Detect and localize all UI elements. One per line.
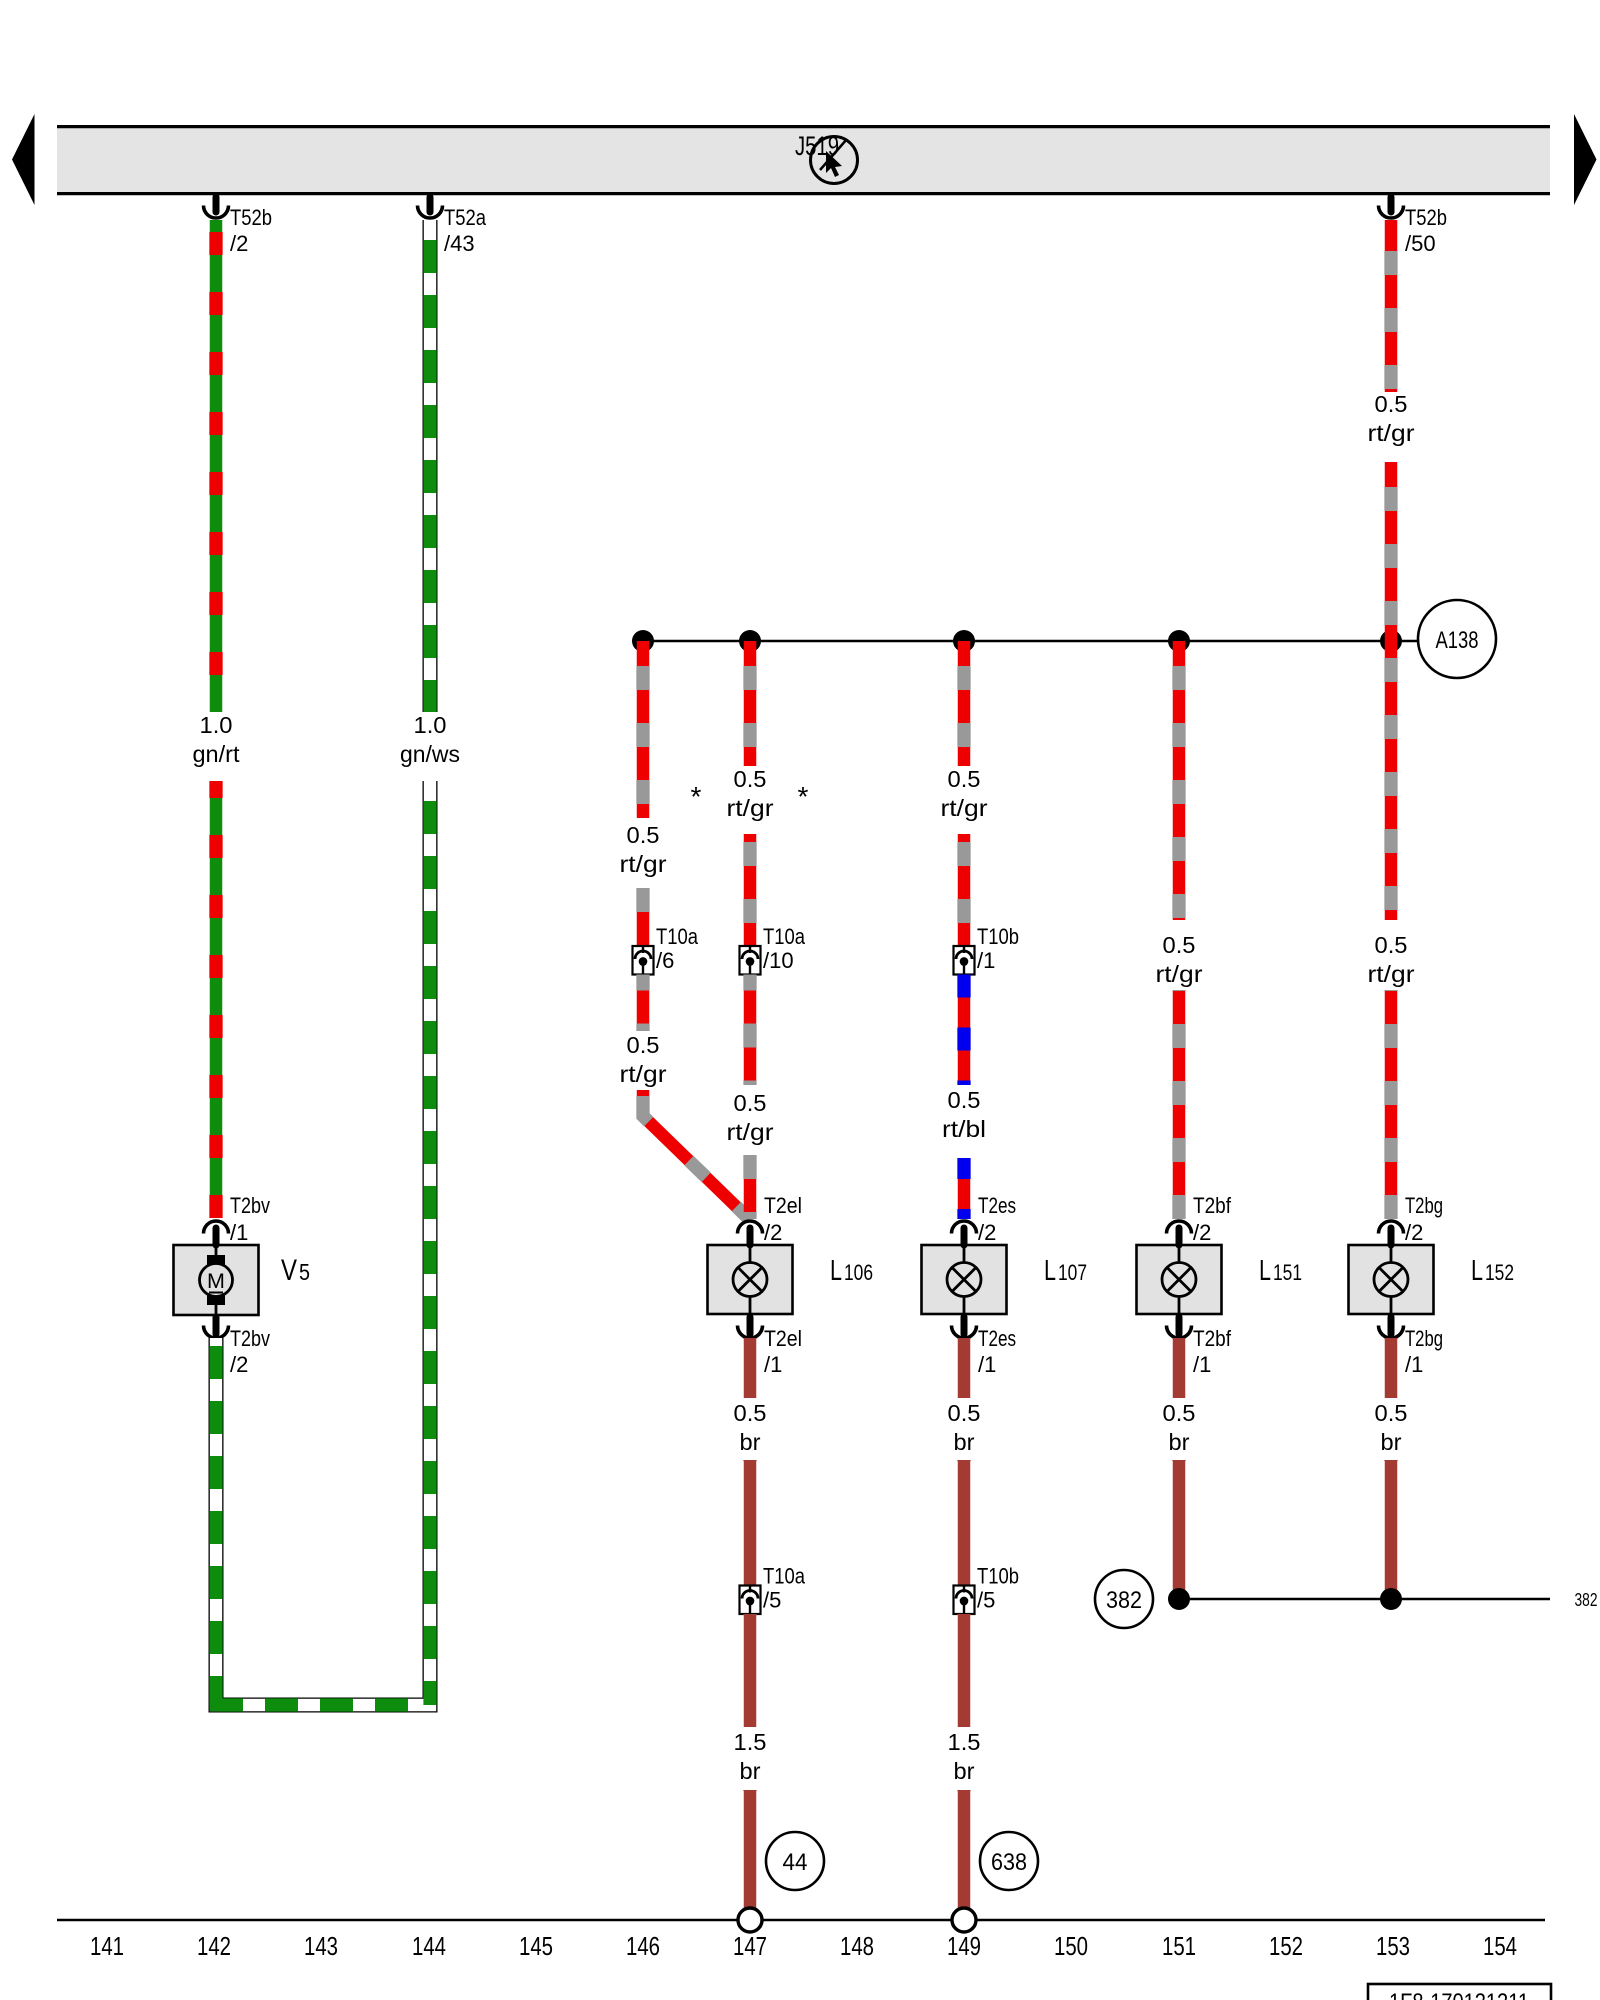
wire segment into L106 T2el/2 <box>744 1155 757 1219</box>
wire segment to connector T10a/6 <box>637 888 650 946</box>
svg-text:638: 638 <box>991 1849 1027 1876</box>
svg-text:rt/gr: rt/gr <box>1368 420 1415 446</box>
svg-text:/6: /6 <box>656 948 674 973</box>
svg-text:br: br <box>954 1429 975 1455</box>
svg-text:T2es: T2es <box>978 1326 1016 1351</box>
wire size label 0.5 rt/gr <box>727 1090 774 1145</box>
svg-text:L: L <box>1471 1255 1483 1287</box>
svg-text:0.5: 0.5 <box>1375 1400 1408 1426</box>
svg-text:/2: /2 <box>230 231 248 256</box>
wire 0.5 rt/gr from A138 node to T10a/6 <box>637 641 650 818</box>
svg-text:T10b: T10b <box>977 1564 1019 1589</box>
track number 144 <box>412 1931 446 1961</box>
track number 149 <box>947 1931 981 1961</box>
svg-text:L: L <box>830 1255 842 1287</box>
wire 1.0 gn/rt from T52b/2 to V5 T2bv/1 (upper segment) <box>210 220 223 712</box>
svg-text:gn/ws: gn/ws <box>400 741 460 767</box>
svg-text:148: 148 <box>840 1931 874 1961</box>
track number 152 <box>1269 1931 1303 1961</box>
svg-text:*: * <box>691 781 702 812</box>
svg-text:154: 154 <box>1483 1931 1517 1961</box>
track number 154 <box>1483 1931 1517 1961</box>
connector T52b/50 on J519 <box>1379 197 1448 256</box>
svg-text:147: 147 <box>733 1931 767 1961</box>
junction dot col146 <box>632 630 654 652</box>
wire size label 0.5 rt/gr <box>620 822 667 877</box>
track number 146 <box>626 1931 660 1961</box>
svg-text:/1: /1 <box>230 1220 248 1245</box>
wire size label 0.5 rt/gr <box>941 766 988 821</box>
wire size label 1.0 gn/rt <box>193 712 241 767</box>
svg-text:T52a: T52a <box>444 205 487 230</box>
svg-text:br: br <box>740 1429 761 1455</box>
svg-text:/2: /2 <box>230 1352 248 1377</box>
wire segment to connector T10b/1 <box>958 834 971 946</box>
svg-text:T10a: T10a <box>656 924 699 949</box>
svg-text:T2bf: T2bf <box>1193 1326 1232 1351</box>
svg-text:1.0: 1.0 <box>414 712 447 738</box>
wire segment to ground terminal 638 <box>958 1790 971 1908</box>
junction dot col147 <box>739 630 761 652</box>
connector T52b/2 on J519 <box>203 197 272 256</box>
wire segment below T10b/5 <box>958 1614 971 1727</box>
svg-text:T2bf: T2bf <box>1193 1193 1232 1218</box>
svg-text:L: L <box>1259 1255 1271 1287</box>
asterisk left <box>691 781 702 812</box>
svg-text:rt/bl: rt/bl <box>942 1116 986 1142</box>
ground reference circle 382 <box>1095 1570 1153 1628</box>
track number 147 <box>733 1931 767 1961</box>
svg-text:V: V <box>281 1254 297 1287</box>
svg-text:153: 153 <box>1376 1931 1410 1961</box>
inline connector T10b/1 <box>954 924 1020 975</box>
node label A138 <box>1418 600 1496 678</box>
svg-text:T10a: T10a <box>763 1564 806 1589</box>
ground continuation label 382 small <box>1575 1590 1598 1610</box>
svg-text:br: br <box>1381 1429 1402 1455</box>
svg-text:144: 144 <box>412 1931 446 1961</box>
svg-text:1.5: 1.5 <box>948 1729 981 1755</box>
svg-text:0.5: 0.5 <box>627 822 660 848</box>
wire 0.5 br from L107 T2es/1 <box>958 1338 971 1398</box>
svg-text:0.5: 0.5 <box>1375 391 1408 417</box>
track number 143 <box>304 1931 338 1961</box>
connector T2bv/2 on V5 <box>203 1317 270 1377</box>
svg-text:/2: /2 <box>1193 1220 1211 1245</box>
inline connector T10a/6 <box>633 924 699 975</box>
wire segment to T10b/5 <box>958 1460 971 1585</box>
wire 0.5 br from L106 T2el/1 <box>744 1338 757 1398</box>
continuation arrow left <box>12 114 35 205</box>
svg-text:br: br <box>1169 1429 1190 1455</box>
wire 1.0 gn/ws from T52a/43 (upper segment) <box>423 220 438 712</box>
svg-text:/1: /1 <box>1405 1352 1423 1377</box>
wire size label 1.5 br <box>734 1729 767 1784</box>
svg-text:44: 44 <box>783 1849 808 1876</box>
svg-text:A138: A138 <box>1436 627 1479 654</box>
ground reference circle 44 <box>766 1832 824 1890</box>
wire size label 0.5 br <box>734 1400 767 1455</box>
inline connector T10b/5 <box>954 1564 1020 1615</box>
svg-text:0.5: 0.5 <box>734 1400 767 1426</box>
svg-text:T52b: T52b <box>230 205 272 230</box>
connector T52a/43 on J519 <box>418 197 487 256</box>
svg-text:T52b: T52b <box>1405 205 1447 230</box>
svg-text:0.5: 0.5 <box>948 1087 981 1113</box>
wire size label 0.5 rt/bl <box>942 1087 986 1142</box>
svg-text:152: 152 <box>1269 1931 1303 1961</box>
svg-text:rt/gr: rt/gr <box>620 1061 667 1087</box>
svg-text:M: M <box>207 1269 225 1293</box>
svg-text:/10: /10 <box>763 948 794 973</box>
svg-text:145: 145 <box>519 1931 553 1961</box>
svg-text:151: 151 <box>1273 1260 1302 1285</box>
svg-text:br: br <box>954 1758 975 1784</box>
ground terminal symbol 638 <box>952 1908 976 1932</box>
svg-text:0.5: 0.5 <box>734 766 767 792</box>
lamp L152 with connectors T2bg <box>1349 1245 1434 1314</box>
svg-text:T2bv: T2bv <box>230 1193 270 1218</box>
wire 1.0 gn/ws U-run to V5 T2bv/2 <box>216 781 430 1705</box>
wire 1.0 gn/ws bottom run and up to V5 <box>210 1346 408 1711</box>
lamp L106 with connectors T2el <box>708 1245 793 1314</box>
wire size label 0.5 rt/gr <box>1368 932 1415 987</box>
ground reference circle 638 <box>980 1832 1038 1890</box>
svg-text:rt/gr: rt/gr <box>727 795 774 821</box>
svg-text:T2es: T2es <box>978 1193 1016 1218</box>
inline connector T10a/10 <box>740 924 806 975</box>
motor V5 (windshield washer pump) <box>174 1245 259 1315</box>
connector T2bv/1 on V5 <box>203 1193 270 1245</box>
ground connection line 382 <box>1179 1598 1550 1601</box>
junction dot col151 <box>1168 630 1190 652</box>
svg-text:0.5: 0.5 <box>1163 1400 1196 1426</box>
svg-text:149: 149 <box>947 1931 981 1961</box>
wire segment through A138 node <box>1385 462 1398 920</box>
wire 0.5 rt/gr from A138 node to L151 <box>1173 641 1186 920</box>
svg-text:T2bg: T2bg <box>1405 1326 1443 1351</box>
wire size label 0.5 rt/gr <box>1156 932 1203 987</box>
wire 0.5 br from L151 T2bf/1 <box>1173 1338 1186 1398</box>
track number 148 <box>840 1931 874 1961</box>
svg-text:5: 5 <box>299 1259 310 1285</box>
diagram part number box 1F8-170121211 <box>1368 1984 1551 2000</box>
svg-text:/1: /1 <box>1193 1352 1211 1377</box>
svg-text:T2bg: T2bg <box>1405 1193 1443 1218</box>
wire size label 1.5 br <box>948 1729 981 1784</box>
junction dot col149 <box>953 630 975 652</box>
track number 153 <box>1376 1931 1410 1961</box>
svg-text:/5: /5 <box>763 1588 781 1613</box>
wire size label 0.5 rt/gr <box>1368 391 1415 446</box>
svg-text:1.5: 1.5 <box>734 1729 767 1755</box>
svg-text:106: 106 <box>844 1260 873 1285</box>
svg-text:rt/gr: rt/gr <box>620 851 667 877</box>
wire 0.5 rt/gr from A138 node to T10a/10 <box>744 641 757 766</box>
wire junction bus to node A138 <box>643 640 1419 643</box>
wire segment to ground node 382 <box>1385 1460 1398 1599</box>
wire diagonal to L106 T2el/2 <box>643 1090 749 1219</box>
wire size label 0.5 br <box>1375 1400 1408 1455</box>
svg-text:1.0: 1.0 <box>200 712 233 738</box>
track number 145 <box>519 1931 553 1961</box>
inline connector T10a/5 <box>740 1564 806 1615</box>
svg-text:rt/gr: rt/gr <box>727 1119 774 1145</box>
svg-text:0.5: 0.5 <box>1163 932 1196 958</box>
wire size label 1.0 gn/ws <box>400 712 460 767</box>
svg-text:152: 152 <box>1485 1260 1514 1285</box>
svg-text:gn/rt: gn/rt <box>193 741 241 767</box>
wire segment to T10a/5 <box>744 1460 757 1585</box>
wire size label 0.5 br <box>1163 1400 1196 1455</box>
svg-text:L: L <box>1044 1255 1056 1287</box>
wire 0.5 rt/gr from A138 node to T10b/1 <box>958 641 971 766</box>
svg-text:382: 382 <box>1575 1590 1598 1610</box>
svg-text:rt/gr: rt/gr <box>941 795 988 821</box>
svg-text:150: 150 <box>1054 1931 1088 1961</box>
continuation arrow right <box>1574 114 1597 205</box>
current track scale line <box>57 1919 1545 1922</box>
label V5 <box>281 1254 310 1287</box>
svg-text:/2: /2 <box>764 1220 782 1245</box>
svg-text:T2bv: T2bv <box>230 1326 270 1351</box>
svg-text:br: br <box>740 1758 761 1784</box>
track number 142 <box>197 1931 231 1961</box>
svg-text:107: 107 <box>1058 1260 1087 1285</box>
wire 0.5 rt/bl below T10b/1 <box>958 975 971 1086</box>
svg-text:rt/gr: rt/gr <box>1368 961 1415 987</box>
control unit J519 bus bar <box>57 125 1550 195</box>
svg-text:142: 142 <box>197 1931 231 1961</box>
svg-text:T10b: T10b <box>977 924 1019 949</box>
svg-text:151: 151 <box>1162 1931 1196 1961</box>
wire segment into L107 T2es/2 <box>958 1158 971 1219</box>
svg-text:1F8-170121211: 1F8-170121211 <box>1389 1989 1529 2000</box>
wire 0.5 rt/gr from T52b/50 <box>1385 220 1398 392</box>
lamp L107 with connectors T2es <box>922 1245 1007 1314</box>
svg-text:0.5: 0.5 <box>1375 932 1408 958</box>
junction dot ground col151 <box>1168 1588 1190 1610</box>
junction dot col153 <box>1380 630 1402 652</box>
wire 0.5 br from L152 T2bg/1 <box>1385 1338 1398 1398</box>
wire 1.0 gn/rt (lower segment) <box>210 781 223 1218</box>
ground terminal symbol 44 <box>738 1908 762 1932</box>
svg-text:*: * <box>798 781 809 812</box>
wire size label 0.5 rt/gr <box>727 766 774 821</box>
svg-text:0.5: 0.5 <box>948 1400 981 1426</box>
svg-text:/1: /1 <box>977 948 995 973</box>
svg-text:T10a: T10a <box>763 924 806 949</box>
wire segment to connector T10a/10 <box>744 834 757 946</box>
track number 141 <box>90 1931 124 1961</box>
svg-text:146: 146 <box>626 1931 660 1961</box>
wire segment to ground node 382 <box>1173 1460 1186 1599</box>
svg-text:0.5: 0.5 <box>734 1090 767 1116</box>
wire segment to ground terminal 44 <box>744 1790 757 1908</box>
track number 150 <box>1054 1931 1088 1961</box>
wire segment below T10a/5 <box>744 1614 757 1727</box>
svg-text:/2: /2 <box>1405 1220 1423 1245</box>
svg-text:/1: /1 <box>978 1352 996 1377</box>
svg-text:382: 382 <box>1106 1587 1142 1614</box>
junction dot ground col153 <box>1380 1588 1402 1610</box>
svg-text:/1: /1 <box>764 1352 782 1377</box>
svg-text:T2el: T2el <box>764 1193 802 1218</box>
track number 151 <box>1162 1931 1196 1961</box>
wire size label 0.5 rt/gr <box>620 1032 667 1087</box>
label J519 with interactive pointer icon <box>795 131 858 184</box>
wire 0.5 rt/gr below T10a/6 <box>637 975 650 1032</box>
svg-text:0.5: 0.5 <box>627 1032 660 1058</box>
svg-text:141: 141 <box>90 1931 124 1961</box>
wire segment into L151 T2bf/2 <box>1173 990 1186 1219</box>
svg-text:T2el: T2el <box>764 1326 802 1351</box>
svg-text:rt/gr: rt/gr <box>1156 961 1203 987</box>
svg-text:/2: /2 <box>978 1220 996 1245</box>
svg-text:143: 143 <box>304 1931 338 1961</box>
wire 0.5 rt/gr below T10a/10 <box>744 975 757 1086</box>
wire segment into L152 T2bg/2 <box>1385 990 1398 1219</box>
asterisk right <box>798 781 809 812</box>
svg-text:/50: /50 <box>1405 231 1436 256</box>
svg-text:0.5: 0.5 <box>948 766 981 792</box>
svg-text:/5: /5 <box>977 1588 995 1613</box>
lamp L151 with connectors T2bf <box>1137 1245 1222 1314</box>
svg-text:/43: /43 <box>444 231 475 256</box>
wire size label 0.5 br <box>948 1400 981 1455</box>
